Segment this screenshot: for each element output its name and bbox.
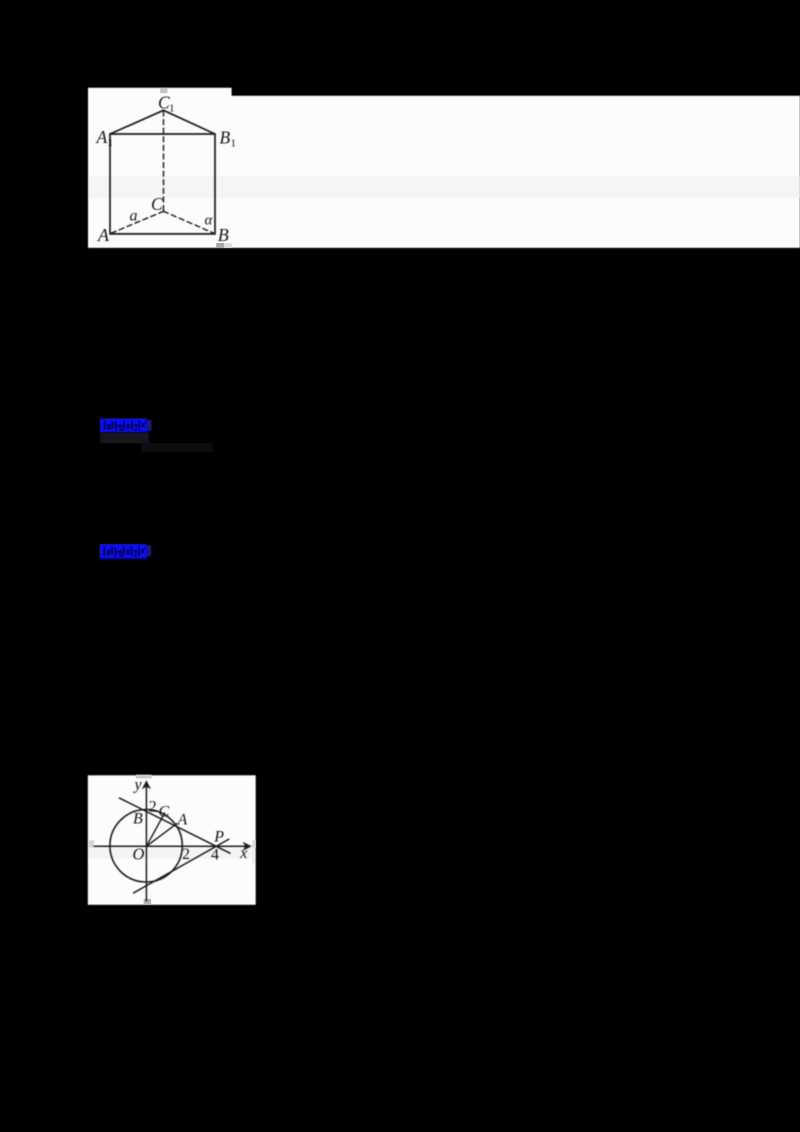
blue label 1 dim tail bracket xyxy=(147,420,152,431)
prism edge A1-A (left vertical) xyxy=(109,134,111,234)
svg-text:α: α xyxy=(205,213,214,229)
prism edge B1-B (right vertical) xyxy=(214,134,216,234)
blue highlighted label 1 xyxy=(100,418,152,432)
figure 1: gray artifact square bottom xyxy=(216,243,224,248)
figure 2: gray artifact top edge xyxy=(136,775,152,779)
svg-text:2: 2 xyxy=(182,846,190,863)
x-axis xyxy=(94,845,247,847)
svg-text:1: 1 xyxy=(108,137,114,149)
svg-text:C: C xyxy=(151,194,163,214)
upper tangent line through P xyxy=(119,798,231,854)
y-axis xyxy=(145,787,147,902)
svg-text:x: x xyxy=(239,845,247,862)
svg-text:2: 2 xyxy=(149,798,157,815)
prism edge A1-C1 xyxy=(110,110,164,134)
figure 2: faint scan shading stripe below x-axis xyxy=(89,847,256,858)
radius O-C xyxy=(146,813,165,847)
svg-text:A: A xyxy=(96,127,108,147)
svg-text:B: B xyxy=(218,225,229,245)
figure 1: gray artifact square top xyxy=(160,88,167,93)
blue label 2 dim tail bracket xyxy=(147,545,151,556)
dark residue row 2 under blue label 1 xyxy=(141,443,213,452)
figure 1: gray artifact square bottom lighter xyxy=(224,243,232,248)
svg-text:1: 1 xyxy=(169,103,175,115)
prism edge A1-B1 (top horizontal) xyxy=(110,133,215,135)
figure 1: faint scan shading stripe xyxy=(89,176,800,198)
svg-text:y: y xyxy=(133,777,143,794)
svg-text:4: 4 xyxy=(211,847,219,864)
svg-text:a: a xyxy=(130,208,138,225)
radius O-A xyxy=(146,823,177,846)
figure 2: white panel (circle/axes drawing) xyxy=(88,775,256,905)
svg-text:A: A xyxy=(177,812,188,829)
svg-text:B: B xyxy=(133,810,143,827)
figure 2: gray artifact left edge xyxy=(88,840,94,847)
dark residue under blue label 1 xyxy=(100,432,149,443)
figure 1: white plate (prism area) with wide band extending to right edge xyxy=(88,88,800,248)
x-axis arrowhead xyxy=(243,842,252,851)
figure 2: gray artifact right edge lower xyxy=(252,848,255,864)
prism hidden edge C-A (dashed) xyxy=(111,211,164,233)
svg-text:A: A xyxy=(97,225,110,245)
prism edge A-B (bottom horizontal) xyxy=(110,233,215,235)
prism hidden edge C1-C (dashed vertical) xyxy=(163,111,165,211)
svg-text:1: 1 xyxy=(231,138,237,150)
svg-text:B: B xyxy=(220,128,231,148)
svg-text:C: C xyxy=(159,804,170,821)
figure 2: gray artifact bottom edge xyxy=(144,899,152,905)
svg-text:P: P xyxy=(213,828,224,845)
figure 2: gray artifact right edge xyxy=(252,840,256,848)
y-axis arrowhead xyxy=(142,780,151,789)
blue highlighted label 2 xyxy=(99,544,151,559)
prism edge C1-B1 xyxy=(164,110,216,134)
prism hidden edge C-B (dashed) xyxy=(164,211,215,233)
svg-text:O: O xyxy=(133,844,145,863)
lower tangent line through P xyxy=(133,839,229,893)
circle centered at O radius 2 xyxy=(110,810,182,882)
